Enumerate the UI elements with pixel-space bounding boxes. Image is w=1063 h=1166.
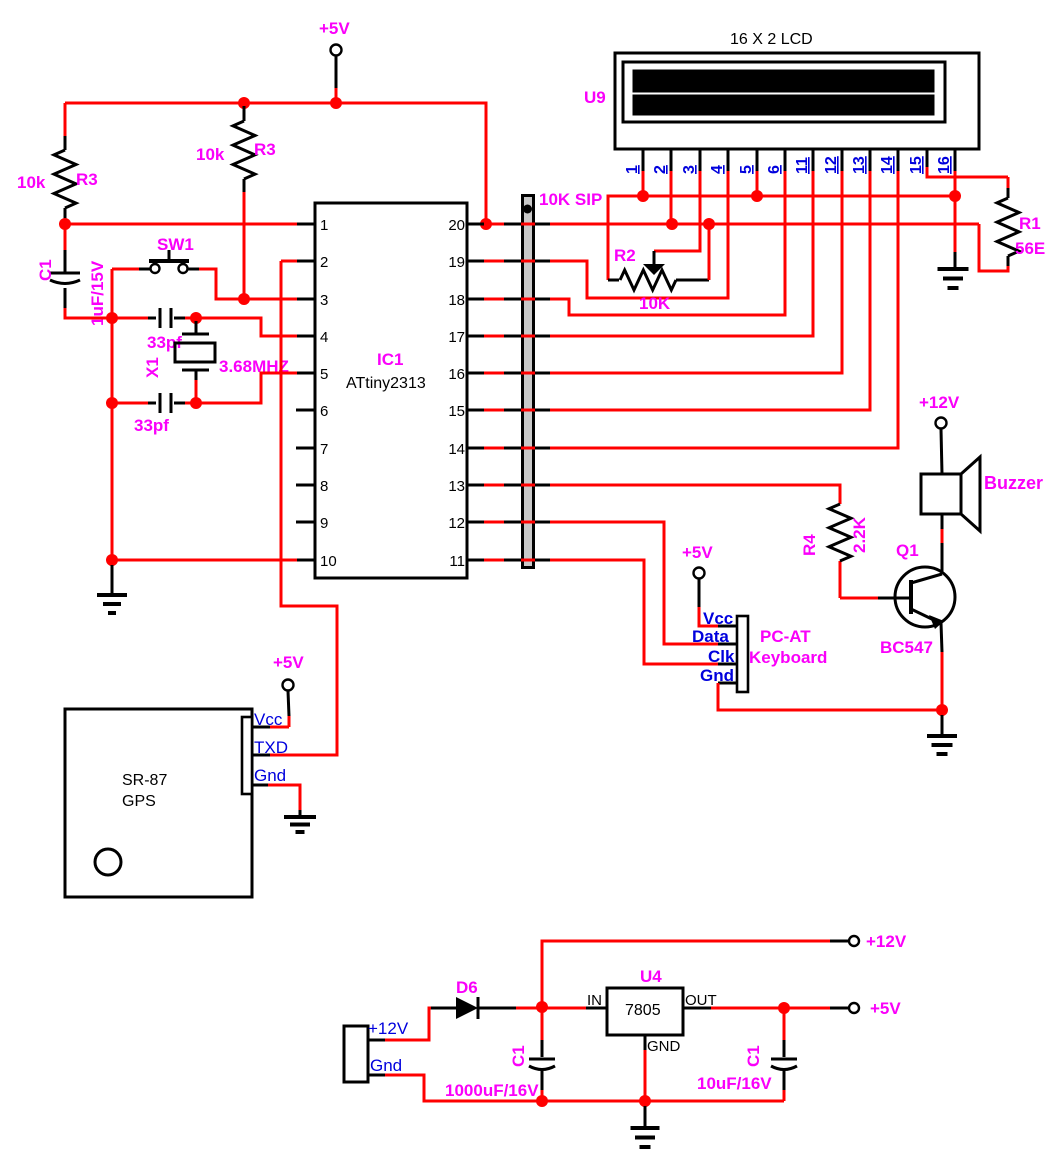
svg-text:13: 13 [448, 478, 465, 495]
wire LCD pin16 down to ground [954, 171, 957, 252]
svg-text:14: 14 [448, 441, 465, 458]
svg-text:Gnd: Gnd [370, 1056, 402, 1075]
svg-text:4: 4 [320, 329, 328, 346]
junction ground node [106, 554, 118, 566]
svg-text:+5V: +5V [870, 999, 901, 1018]
junction LCD pin2/+5V [666, 218, 678, 230]
svg-text:15: 15 [448, 403, 465, 420]
svg-text:+5V: +5V [682, 543, 713, 562]
diode D6 [456, 997, 478, 1019]
IC1 left pin numbers 1-10 [320, 217, 337, 570]
power +12V terminal (buzzer) [936, 418, 947, 429]
svg-text:16: 16 [448, 366, 465, 383]
svg-text:2: 2 [320, 254, 328, 271]
crystal X1 plates [182, 333, 209, 336]
junction LCD pin5/gnd [751, 190, 763, 202]
svg-text:U9: U9 [584, 88, 606, 107]
svg-text:R3: R3 [76, 170, 98, 189]
svg-text:D6: D6 [456, 978, 478, 997]
resistor R4 body [829, 504, 851, 561]
wire pin11 to keyboard Clk [484, 560, 718, 664]
wire pin13 to R4 [484, 485, 840, 504]
LCD pin stubs [643, 149, 955, 171]
power +5V terminal (top) [331, 45, 342, 56]
wire 7805 GND down [644, 1035, 647, 1050]
svg-text:Keyboard: Keyboard [749, 648, 827, 667]
svg-text:1000uF/16V: 1000uF/16V [445, 1081, 539, 1100]
svg-text:IC1: IC1 [377, 350, 403, 369]
wire C1 bottom to node A [65, 308, 112, 318]
wire crystal bottom to pin5 [196, 373, 297, 403]
resistor R3 (left 10k) body [54, 150, 76, 208]
power +5V terminal (GPS) [283, 680, 294, 691]
svg-text:1uF/15V: 1uF/15V [88, 260, 107, 326]
LCD U9 inner bezel [623, 62, 945, 122]
svg-text:PC-AT: PC-AT [760, 627, 811, 646]
ground (below LCD pin16) [954, 252, 957, 267]
svg-text:1: 1 [320, 217, 328, 234]
svg-text:5: 5 [738, 165, 755, 174]
junction IN node [536, 1001, 548, 1013]
junction R3-left / pin1 / C1 [59, 218, 71, 230]
IC1 right pin numbers 20-11 [448, 217, 465, 570]
svg-text:SW1: SW1 [157, 235, 194, 254]
SIP common pin dot [523, 205, 532, 214]
svg-text:13: 13 [851, 156, 868, 174]
resistor R1 body [997, 198, 1019, 256]
wire pin15 to LCD pin13 [484, 171, 870, 410]
transistor Q1 collector [911, 574, 942, 583]
svg-text:9: 9 [320, 515, 328, 532]
wire LCD pin3 to pot wiper [654, 171, 700, 251]
IC1 unconnected left pin stubs 6-9 [296, 410, 315, 522]
LCD U9 outer box [615, 53, 979, 149]
wire Q1 emitter to ground [941, 652, 944, 710]
junction OUT node [778, 1002, 790, 1014]
junction crystal bottom [190, 397, 202, 409]
wire +12V input to D6 [368, 1039, 385, 1042]
svg-text:10K: 10K [639, 294, 671, 313]
svg-text:3: 3 [320, 292, 328, 309]
transistor Q1 emitter [911, 609, 938, 622]
wire pin10 row [112, 559, 297, 562]
resistor network 10K SIP bar [523, 196, 534, 568]
wire pin17 to LCD pin11 [484, 171, 813, 336]
wire SW1 left lead [139, 268, 150, 271]
wire LCD pin15 to R1 [927, 167, 1008, 177]
svg-text:6: 6 [766, 165, 783, 174]
junction Q1 emitter / keyboard gnd [936, 704, 948, 716]
svg-text:ATtiny2313: ATtiny2313 [346, 375, 426, 392]
crystal X1 body [175, 343, 215, 362]
svg-text:10K SIP: 10K SIP [539, 190, 602, 209]
wire pin2 down to GPS [270, 261, 337, 755]
svg-text:10uF/16V: 10uF/16V [697, 1074, 772, 1093]
svg-text:12: 12 [823, 156, 840, 174]
svg-text:R4: R4 [800, 534, 819, 556]
ground (Q1 emitter) [941, 715, 944, 734]
wire pin16 to LCD pin12 [484, 171, 842, 373]
capacitor C1 1000uF leads [541, 1007, 544, 1040]
svg-text:C1: C1 [744, 1045, 763, 1067]
capacitor C1 10uF leads [783, 1008, 786, 1040]
capacitor C1 10uF body [771, 1059, 797, 1070]
ground (PSU) [644, 1106, 647, 1128]
svg-text:R1: R1 [1019, 214, 1041, 233]
svg-text:16 X 2 LCD: 16 X 2 LCD [730, 31, 813, 48]
wire +5V to keyboard Vcc [699, 607, 718, 626]
svg-text:17: 17 [448, 329, 465, 346]
ground (GPS) [284, 817, 316, 832]
wire buzzer to Q1 collector [941, 514, 944, 556]
wire IN node to 7805 [542, 1007, 586, 1010]
capacitor C1 (1uF/15V) leads [64, 227, 67, 250]
wire GPS Vcc [288, 716, 291, 727]
svg-text:12: 12 [448, 515, 465, 532]
svg-text:Vcc: Vcc [703, 609, 733, 628]
junction LCD pin1/gnd [637, 190, 649, 202]
junction +5V rail / terminal [330, 97, 342, 109]
svg-text:20: 20 [448, 217, 465, 234]
power +12V terminal (PSU out) [849, 936, 859, 946]
wire D6 to IN node [516, 1007, 542, 1010]
junction pin20 node [480, 218, 492, 230]
wire keyboard Gnd to Q1 emitter [718, 682, 737, 685]
junction +5V rail / R3 mid [238, 97, 250, 109]
regulator U4 7805 box [607, 988, 683, 1035]
svg-text:2.2K: 2.2K [850, 516, 869, 553]
svg-text:56E: 56E [1015, 239, 1045, 258]
LCD pin numbers 1-16 [624, 156, 953, 174]
op-amp IC1 body (ATtiny2313 box) [315, 203, 467, 578]
wire pin20 +5V line [486, 223, 979, 226]
buzzer LS1 box [921, 474, 961, 514]
svg-text:6: 6 [320, 403, 328, 420]
potentiometer R2 right lead [676, 279, 709, 282]
svg-text:Gnd: Gnd [254, 766, 286, 785]
wire crystal top to pin4 [196, 318, 297, 336]
svg-text:33pf: 33pf [134, 416, 169, 435]
svg-text:2: 2 [652, 165, 669, 174]
wire +5V line to R1 bottom [979, 224, 1008, 271]
svg-text:+12V: +12V [866, 932, 907, 951]
svg-text:16: 16 [936, 156, 953, 174]
PSU input connector [344, 1026, 368, 1082]
GPS SR-87 box [65, 709, 252, 897]
svg-text:U4: U4 [640, 967, 662, 986]
wire pin3 row [244, 298, 297, 301]
switch SW1 actuator [149, 259, 189, 263]
ground (left, below node) [111, 565, 114, 595]
transistor Q1 body [895, 567, 955, 627]
wire pin14 to LCD pin14 [484, 171, 898, 448]
capacitor 33pf (bottom) leads [112, 402, 148, 405]
svg-text:14: 14 [879, 156, 896, 174]
resistor R4 (2.2K) leads [839, 485, 842, 504]
GPS mounting hole [95, 849, 121, 875]
svg-text:R2: R2 [614, 246, 636, 265]
svg-text:10k: 10k [196, 145, 225, 164]
transistor Q1 base bar [909, 580, 913, 614]
svg-text:X1: X1 [143, 357, 162, 378]
svg-text:11: 11 [449, 553, 465, 570]
wire ground line (LCD pins 1,5,16) [608, 196, 955, 280]
junction node A [106, 312, 118, 324]
potentiometer R2 wiper [653, 251, 656, 266]
svg-text:15: 15 [908, 156, 925, 174]
svg-text:SR-87: SR-87 [122, 772, 167, 789]
junction LCD pin16/gnd [949, 190, 961, 202]
keyboard connector bracket [737, 616, 748, 692]
power +5V terminal (PSU out) [849, 1003, 859, 1013]
svg-text:OUT: OUT [685, 992, 717, 1009]
svg-text:R3: R3 [254, 140, 276, 159]
wire Clk stub [718, 663, 737, 666]
wire OUT to +5V terminal [784, 1007, 830, 1010]
wire LCD pin1 down [642, 171, 645, 196]
svg-text:19: 19 [448, 254, 465, 271]
wire R2 right to +5V line [708, 224, 711, 280]
junction 7805 GND / gnd rail [639, 1095, 651, 1107]
svg-text:GPS: GPS [122, 793, 156, 810]
wire pin18 to LCD pin6 [484, 171, 785, 315]
svg-text:10: 10 [320, 553, 337, 570]
switch SW1 contacts [151, 264, 160, 273]
junction C1-1000uF / gnd rail [536, 1095, 548, 1107]
resistor R1 leads [1007, 177, 1010, 189]
wire GPS Gnd to ground [252, 784, 268, 787]
IC1 right pin stubs and SIP crossing marks [467, 224, 550, 560]
junction node B [106, 397, 118, 409]
svg-text:18: 18 [448, 292, 465, 309]
wire R4 to Q1 base [840, 597, 878, 600]
svg-text:BC547: BC547 [880, 638, 933, 657]
svg-text:GND: GND [647, 1038, 681, 1055]
wire pin1 row [65, 223, 297, 226]
capacitor 33pf (top) leads [112, 317, 148, 320]
capacitor C1 1000uF body [529, 1059, 555, 1070]
wire 7805 OUT [683, 1007, 711, 1010]
svg-text:Q1: Q1 [896, 541, 919, 560]
potentiometer R2 left lead [608, 279, 619, 282]
LCD U9 display row 2 [633, 95, 934, 115]
capacitor 33pf (top) body [160, 308, 171, 328]
resistor R3 (left 10k) leads [64, 103, 67, 136]
wire SW1 right lead [188, 268, 199, 271]
crystal X1 leads [195, 321, 198, 334]
capacitor C1 (1uF/15V) body [50, 273, 80, 284]
potentiometer R2 body [620, 270, 676, 290]
svg-text:+5V: +5V [273, 653, 304, 672]
svg-text:10k: 10k [17, 173, 46, 192]
wire SW1 right to pin3 node [199, 269, 244, 299]
wire Data stub [718, 643, 737, 646]
wire pin2 to GPS TXD [281, 260, 297, 263]
wire SW1 left to node A [111, 269, 114, 318]
svg-text:Vcc: Vcc [254, 710, 283, 729]
wire LCD pin5 down [756, 171, 759, 196]
wire PSU ground rail [368, 1074, 385, 1077]
svg-text:8: 8 [320, 478, 328, 495]
wire +12V rail to terminal [542, 941, 830, 1007]
svg-text:IN: IN [587, 992, 602, 1009]
svg-text:C1: C1 [36, 259, 55, 281]
svg-text:11: 11 [794, 157, 811, 174]
wire pin19 to LCD pin4 [484, 171, 728, 298]
svg-text:C1: C1 [509, 1045, 528, 1067]
svg-text:4: 4 [709, 165, 726, 174]
svg-text:+5V: +5V [319, 19, 350, 38]
junction R2/+5V line [703, 218, 715, 230]
power +5V terminal (keyboard) [694, 568, 705, 579]
GPS connector bracket [242, 717, 252, 794]
buzzer LS1 horn [961, 457, 980, 531]
wire LCD pin2 down [670, 171, 673, 224]
resistor R3 (middle 10k) leads [243, 106, 246, 121]
junction crystal top [190, 312, 202, 324]
svg-text:TXD: TXD [254, 738, 288, 757]
svg-text:1: 1 [624, 165, 641, 174]
svg-text:5: 5 [320, 366, 328, 383]
resistor R3 (middle 10k) body [233, 121, 255, 179]
svg-text:7805: 7805 [625, 1002, 661, 1019]
svg-text:3: 3 [681, 165, 698, 174]
wire +5V top rail [65, 103, 486, 224]
capacitor 33pf (bottom) body [160, 393, 171, 413]
wire pin12 to keyboard Data [484, 522, 718, 644]
svg-text:+12V: +12V [919, 393, 960, 412]
wire node A to node B to ground node [111, 318, 114, 560]
svg-text:Buzzer: Buzzer [984, 473, 1043, 493]
svg-text:+12V: +12V [368, 1019, 409, 1038]
LCD U9 display row 1 [633, 70, 934, 92]
junction pin3 node [238, 293, 250, 305]
svg-text:7: 7 [320, 441, 328, 458]
